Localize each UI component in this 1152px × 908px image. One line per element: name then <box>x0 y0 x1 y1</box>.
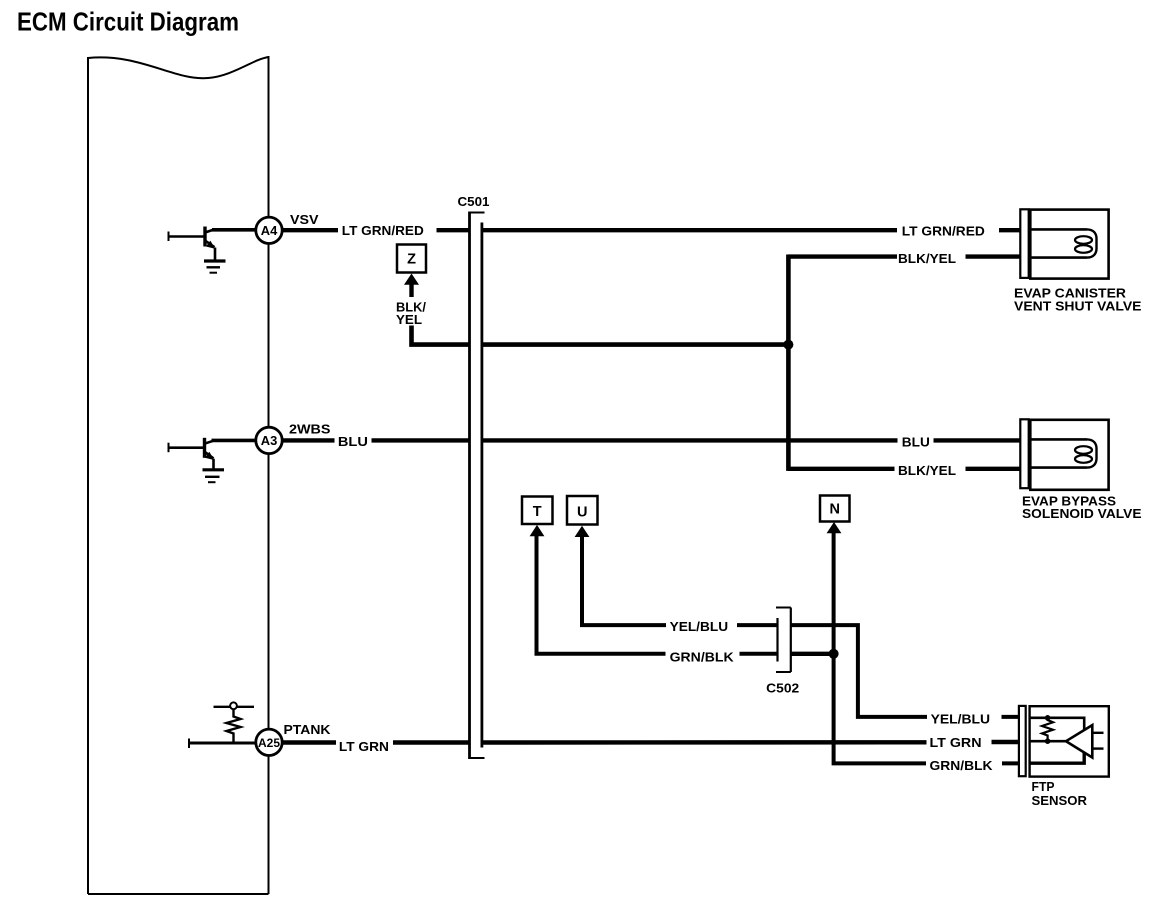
svg-text:GRN/BLK: GRN/BLK <box>930 758 994 773</box>
arrow into Z <box>404 274 419 298</box>
svg-text:T: T <box>533 504 542 520</box>
svg-text:N: N <box>830 502 840 518</box>
wire LT GRN (A25 to FTP) <box>282 740 1020 745</box>
arrow into T <box>530 525 545 536</box>
arrow into U <box>575 526 590 537</box>
connector C501 <box>470 212 485 760</box>
connector T <box>522 497 553 525</box>
connector C502 <box>776 608 791 673</box>
svg-text:PTANK: PTANK <box>284 723 331 737</box>
svg-text:A25: A25 <box>258 738 281 750</box>
svg-text:VENT SHUT VALVE: VENT SHUT VALVE <box>1014 300 1142 314</box>
transistor Q2 <box>168 438 215 469</box>
pin A4 <box>256 217 282 243</box>
svg-text:EVAP CANISTER: EVAP CANISTER <box>1014 287 1126 301</box>
op-amp triangle (in FTP) <box>1066 725 1092 757</box>
resistor R2 (in FTP) <box>1042 715 1053 744</box>
caption FTP SENSOR <box>1032 780 1088 808</box>
wire YEL/BLU (U to FTP) <box>582 536 1020 717</box>
wire BLK/YEL trunk vertical <box>786 255 791 471</box>
wire Q2 collector to A3 <box>212 439 257 443</box>
svg-text:LT GRN/RED: LT GRN/RED <box>342 223 424 238</box>
wire BLK/YEL (trunk to vent valve) <box>788 254 1021 258</box>
svg-text:Z: Z <box>407 252 416 268</box>
svg-text:2WBS: 2WBS <box>289 423 331 437</box>
wire GRN/BLK (T to C502) <box>537 535 836 654</box>
FTP sensor <box>1019 706 1109 777</box>
ground (Q2 emitter) <box>203 470 225 482</box>
wire base lead to A25 <box>188 739 257 749</box>
svg-text:BLK/YEL: BLK/YEL <box>898 251 956 266</box>
connector Z <box>397 245 426 273</box>
svg-text:LT GRN: LT GRN <box>930 735 982 750</box>
svg-text:YEL: YEL <box>396 313 422 327</box>
resistor R1 <box>214 702 255 743</box>
wire Q1 collector to A4 <box>212 228 257 232</box>
svg-text:U: U <box>577 504 587 520</box>
pin A25 <box>256 729 282 755</box>
arrow into N <box>827 522 842 533</box>
wire N vertical (to FTP GRN/BLK) <box>834 533 1020 763</box>
svg-text:LT GRN: LT GRN <box>339 739 389 754</box>
svg-text:ECM Circuit Diagram: ECM Circuit Diagram <box>17 7 239 37</box>
ground (Q1 emitter) <box>204 261 226 273</box>
svg-text:SENSOR: SENSOR <box>1032 794 1088 808</box>
wire BLK/YEL (Z to trunk junction) <box>412 326 791 345</box>
junction <box>783 340 793 350</box>
svg-text:YEL/BLU: YEL/BLU <box>670 619 729 634</box>
svg-text:SOLENOID VALVE: SOLENOID VALVE <box>1022 507 1142 521</box>
caption EVAP BYPASS SOLENOID VALVE <box>1022 494 1142 521</box>
label BLK/YEL (at Z) <box>396 301 427 328</box>
svg-text:C502: C502 <box>766 681 799 695</box>
svg-text:GRN/BLK: GRN/BLK <box>670 649 735 664</box>
svg-text:BLK/YEL: BLK/YEL <box>898 463 956 478</box>
valve V2: EVAP bypass solenoid valve <box>1020 419 1108 490</box>
svg-text:VSV: VSV <box>290 213 319 227</box>
svg-text:A4: A4 <box>261 224 278 238</box>
svg-text:BLU: BLU <box>338 434 368 449</box>
junction <box>829 649 839 659</box>
caption EVAP CANISTER VENT SHUT VALVE <box>1014 287 1142 314</box>
ECM module outline <box>88 56 269 894</box>
connector N <box>820 496 850 522</box>
valve V1: EVAP canister vent shut valve <box>1020 209 1108 278</box>
svg-text:A3: A3 <box>261 434 278 448</box>
connector U <box>567 496 598 525</box>
svg-text:C501: C501 <box>458 195 490 209</box>
svg-text:LT GRN/RED: LT GRN/RED <box>902 224 985 239</box>
svg-text:YEL/BLU: YEL/BLU <box>931 711 991 726</box>
pin A3 <box>256 427 282 453</box>
svg-text:BLU: BLU <box>902 434 930 449</box>
wire BLU (A3 to bypass valve) <box>282 438 1021 442</box>
wire BLK/YEL (trunk to bypass valve) <box>788 467 1021 471</box>
wire LT GRN/RED (A4 to valve) <box>282 228 1021 232</box>
transistor Q1 <box>168 227 216 261</box>
svg-text:FTP: FTP <box>1032 780 1055 794</box>
